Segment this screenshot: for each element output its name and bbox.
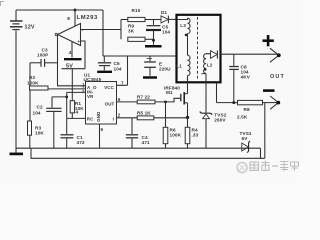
- R9 R10 left junction vertical: [120, 20, 122, 40]
- capacitor C5 104: [145, 20, 162, 47]
- winding L1: [176, 55, 190, 75]
- winding L3: [177, 18, 191, 36]
- wire L2 bottom exit: [202, 74, 207, 92]
- capacitor C2 104: [46, 97, 66, 148]
- node junction dot at LM293 V+ tap: [74, 9, 77, 12]
- capacitor C1 472: [61, 118, 74, 148]
- junction dot source: [186, 116, 189, 119]
- transformer T1 box: [177, 15, 221, 83]
- arrow OUT+: [270, 48, 281, 62]
- capacitor C4 471: [126, 118, 138, 148]
- plus terminal: [263, 35, 274, 46]
- wire op-amp output down to pin1: [58, 35, 86, 86]
- diode D1: [161, 16, 177, 24]
- junction dot VREF/C2: [65, 96, 68, 99]
- wire L3 to L1: [187, 34, 189, 56]
- wire secondary minus drop: [216, 83, 218, 103]
- ground bar (op-amp pin4): [64, 58, 82, 60]
- wire OUT- line: [217, 102, 238, 104]
- TVS1 6V: [242, 141, 250, 153]
- IC U1 UC3845: [86, 82, 117, 125]
- wire L1 to drain: [187, 76, 189, 94]
- wire gate from R7: [155, 98, 181, 102]
- resistor R3 10K: [28, 121, 32, 148]
- MOSFET M1 IRF840: [181, 92, 188, 117]
- pin 4 gnd wire: [69, 42, 72, 58]
- capacitor C3 100P: [30, 59, 58, 67]
- wire bus B lower return: [31, 148, 265, 158]
- ground (battery): [10, 148, 24, 154]
- wire VCC rail vertical: [102, 10, 104, 56]
- wire RC pin: [67, 117, 86, 119]
- resistor R1 10K: [70, 68, 74, 118]
- capacitor C6 104: [97, 56, 112, 72]
- resistor R8 2.5K: [238, 100, 278, 104]
- watermark logo: [237, 161, 299, 173]
- ground bus A: [16, 148, 261, 158]
- diode D2 output rectifier: [211, 50, 218, 58]
- node A feedback vertical: [29, 63, 31, 121]
- wire top rail from battery to VCC corner: [16, 9, 103, 11]
- arrow OUT-: [270, 96, 280, 109]
- resistor R10: [121, 17, 161, 21]
- wire OUT+ line: [221, 53, 278, 55]
- capacitor C8 104 4KV: [229, 54, 239, 102]
- op-amp U2 LM293: [55, 24, 84, 46]
- wire op-amp + input to 5V rail: [81, 41, 86, 69]
- TVS2 260V: [200, 92, 213, 148]
- core dashed: [197, 17, 199, 81]
- wire VCC horizontal to transformer: [103, 55, 177, 57]
- resistor R9 3K: [128, 37, 154, 41]
- battery B 12V: [10, 10, 23, 148]
- wire VREF branch vertical: [66, 92, 68, 118]
- resistor R4 .33: [185, 117, 190, 148]
- resistor R2 100K: [30, 86, 86, 90]
- wire IC gnd pin5: [99, 124, 101, 148]
- minus terminal: [263, 89, 275, 92]
- resistor R5 1K: [117, 116, 188, 120]
- wire L2 top to diode: [206, 53, 211, 56]
- winding L2: [204, 54, 213, 74]
- resistor R7 22: [117, 100, 156, 104]
- resistor R6 100K: [163, 101, 168, 149]
- wire VCC drop to pin7: [117, 56, 128, 85]
- wire VR pin8: [67, 91, 86, 93]
- wire 5V rail stub: [62, 68, 86, 70]
- pin 8 V+ wire: [67, 10, 75, 26]
- wire OUT- to bus B: [264, 103, 266, 159]
- wire op-amp - input to R9/R10 junction: [81, 29, 122, 31]
- corner artifact: [0, 1, 4, 6]
- capacitor E 220U electrolytic: [143, 56, 157, 78]
